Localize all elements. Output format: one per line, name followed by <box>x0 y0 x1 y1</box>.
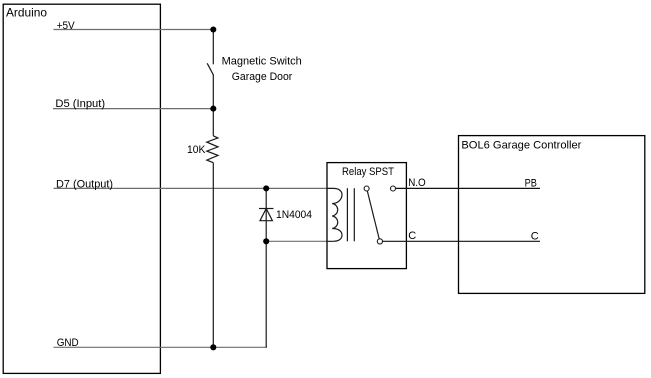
wire +5V drop to switch <box>212 30 214 65</box>
Arduino box U1 <box>3 4 160 373</box>
node +5V junction <box>210 26 216 32</box>
wire diode bottom to GND corner <box>265 241 268 347</box>
relay K1 box <box>327 163 406 269</box>
svg-text:Magnetic Switch: Magnetic Switch <box>222 56 302 68</box>
diode D1 cathode bar <box>259 208 274 210</box>
wire D5 rail <box>53 108 213 110</box>
wire C to C <box>383 240 541 242</box>
svg-text:BOL6 Garage Controller: BOL6 Garage Controller <box>461 139 581 151</box>
wire D7 rail to relay coil <box>54 187 328 189</box>
node coil-bottom junction <box>263 238 269 244</box>
diode D1 triangle <box>260 209 272 221</box>
svg-text:GND: GND <box>57 337 79 349</box>
relay blade <box>367 191 379 239</box>
wire N.O to PB <box>396 187 541 189</box>
svg-text:10K: 10K <box>187 144 206 156</box>
relay core line 1 <box>346 188 348 241</box>
wire resistor to GND <box>212 163 214 348</box>
relay common contact circle <box>377 239 382 244</box>
svg-text:Relay SPST: Relay SPST <box>342 166 394 178</box>
relay armature contact circle <box>364 186 369 191</box>
svg-text:D7 (Output): D7 (Output) <box>56 178 113 190</box>
svg-text:1N4004: 1N4004 <box>276 209 312 221</box>
wire +5V rail <box>54 29 214 31</box>
svg-text:C: C <box>408 230 416 242</box>
BOL6 Garage Controller box <box>459 136 645 294</box>
wire GND rail <box>54 346 267 348</box>
svg-text:PB: PB <box>525 178 537 190</box>
relay N.O contact circle <box>391 186 396 191</box>
resistor R1 10K <box>207 136 218 163</box>
relay core line 2 <box>353 188 355 241</box>
wire coil bottom return <box>266 240 327 242</box>
node D7 junction <box>263 185 269 191</box>
svg-text:N.O: N.O <box>408 177 426 189</box>
wire diode branch vertical <box>265 188 267 241</box>
node D5 junction <box>210 106 216 112</box>
svg-text:Garage Door: Garage Door <box>232 71 293 83</box>
svg-text:C: C <box>531 231 539 243</box>
magnetic switch S1 blade <box>207 63 213 75</box>
node GND junction <box>210 344 216 350</box>
wire switch to D5 node <box>212 75 214 136</box>
svg-text:Arduino: Arduino <box>6 6 47 20</box>
relay coil L1 <box>327 188 342 241</box>
svg-text:D5 (Input): D5 (Input) <box>55 98 105 110</box>
svg-text:+5V: +5V <box>57 20 76 32</box>
